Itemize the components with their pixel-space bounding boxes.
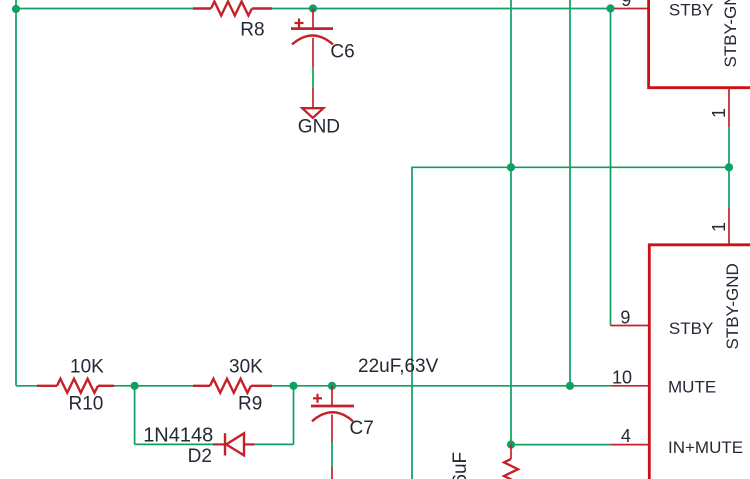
ground GND symbol — [302, 88, 323, 118]
svg-text:GND: GND — [298, 116, 340, 137]
wire: U2 pin 9 stub — [611, 325, 650, 327]
wire: vertical x=511 from top edge down — [510, 0, 512, 445]
wire: U2 pin 4 stub — [611, 444, 650, 446]
wire: green between pin1 stubs x=729 — [728, 127, 730, 208]
node at (570,385.8) — [566, 382, 574, 390]
node at (610.5,8.5) — [606, 4, 614, 12]
wire: vertical x=570 from top edge down to MUTE net — [569, 0, 571, 386]
svg-text:9: 9 — [620, 307, 630, 327]
wire: U2 pin 10 stub — [611, 385, 650, 387]
IC U1 box (top right) — [649, 0, 750, 88]
wire: MUTE net mid segment — [272, 385, 611, 387]
node at (134.6,385.8) — [131, 382, 139, 390]
svg-text:STBY-GND: STBY-GND — [723, 263, 742, 349]
wire: top horizontal net y=8.5 left segment — [16, 8, 193, 10]
resistor R8 — [193, 2, 272, 16]
svg-text:STBY: STBY — [669, 0, 713, 19]
wire: U2 pin 1 stub red — [728, 208, 730, 245]
wire: D2 branch bottom left segment — [135, 443, 213, 445]
wire: C6 to GND green segment — [312, 67, 314, 88]
svg-text:R8: R8 — [240, 20, 264, 41]
wire: below C7 red tail — [331, 467, 333, 479]
IC U2 box (bottom right) — [649, 245, 750, 479]
resistor R9 — [193, 379, 272, 393]
wire: D2 branch bottom right segment — [255, 443, 294, 445]
wire: MUTE net between R10 and R9 — [114, 385, 193, 387]
svg-text:9: 9 — [621, 0, 631, 10]
svg-text:STBY: STBY — [669, 319, 713, 338]
node at (511,444.6) — [507, 441, 515, 449]
svg-text:R10: R10 — [69, 394, 104, 415]
svg-text:C6: C6 — [330, 41, 354, 62]
wire: vertical x=610.5 from top net to pin 9 of U2 — [610, 9, 612, 326]
svg-text:0.56uF: 0.56uF — [450, 452, 471, 479]
svg-text:C7: C7 — [350, 418, 374, 439]
wire: top horizontal net y=8.5 mid segment — [272, 8, 611, 10]
node at (511,167.3) — [507, 163, 515, 171]
node at (16,9) top-left junction — [12, 5, 20, 13]
wire: horizontal net y=167.3 — [412, 167, 729, 479]
wire: left vertical bus x=16 — [15, 0, 17, 386]
node at (313,8.5) C6 tap — [309, 4, 317, 12]
wire: below C7 green — [331, 442, 333, 467]
node at (332,385.8) — [328, 382, 336, 390]
svg-text:D2: D2 — [188, 446, 212, 467]
resistor R10 — [37, 379, 114, 393]
svg-text:IN+MUTE: IN+MUTE — [668, 438, 743, 457]
wire: U2 pin 4 green segment — [511, 444, 611, 446]
svg-text:30K: 30K — [229, 356, 263, 377]
svg-text:10K: 10K — [70, 356, 104, 377]
wire: D2 branch left vertical — [134, 386, 136, 445]
wire: D2 branch right vertical — [293, 386, 295, 445]
svg-text:R9: R9 — [238, 394, 262, 415]
svg-text:22uF,63V: 22uF,63V — [358, 356, 439, 377]
capacitor C7 — [311, 386, 354, 442]
svg-text:MUTE: MUTE — [668, 378, 716, 397]
node at (293.5,385.8) — [289, 382, 297, 390]
capacitor C6 — [291, 9, 333, 68]
diode D2 — [213, 433, 255, 455]
wire: top pin stub to U1 pin 9 — [611, 8, 649, 10]
svg-text:1: 1 — [709, 108, 729, 118]
wire: U1 pin 1 stub red — [728, 88, 730, 127]
svg-text:1N4148: 1N4148 — [143, 424, 213, 446]
node at (729,167.3) — [725, 163, 733, 171]
svg-text:10: 10 — [612, 368, 632, 388]
svg-text:STBY-GND: STBY-GND — [721, 0, 740, 68]
svg-text:4: 4 — [621, 426, 631, 446]
resistor R? vertical below pin4 node (clipped) — [504, 445, 518, 479]
svg-text:1: 1 — [709, 222, 729, 232]
wire: MUTE net horizontal y=385.8 — [16, 385, 37, 387]
